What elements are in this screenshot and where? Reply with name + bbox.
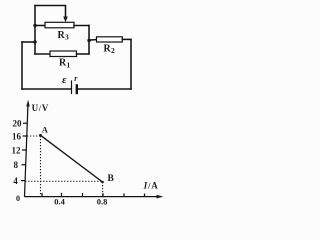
label 20 [13,119,23,129]
label R1 [59,58,71,70]
label 0.8 [97,196,108,206]
wire top wiper loop [35,6,66,18]
svg-text:4: 4 [13,176,18,186]
node A dot [39,134,42,137]
svg-text:U/V: U/V [32,103,49,113]
y tick 12 [22,149,26,151]
wire right inner rail [88,26,90,54]
resistor R1 [50,51,77,57]
wire bottom right [78,88,131,90]
svg-text:I/A: I/A [143,180,158,190]
label EMF epsilon [62,74,67,86]
label I/A [143,180,158,190]
battery cell E r : short plate [76,86,78,94]
wire R1 right lead [77,53,90,55]
battery cell E r : long plate [71,81,73,94]
svg-text:0.4: 0.4 [54,197,65,207]
wire R2 left lead [89,39,97,42]
label 0 origin [16,194,20,203]
svg-text:R2: R2 [104,43,116,55]
svg-text:0.8: 0.8 [97,196,108,206]
x tick 0.4 [61,193,63,197]
label 16 [12,132,22,142]
resistor R2 [97,37,123,42]
resistor R3 [45,22,74,28]
y tick 20 [23,122,27,124]
svg-text:R3: R3 [58,30,70,42]
dashed level 4 to B [25,180,102,182]
label U/V [32,103,49,113]
y tick 16 [23,135,27,137]
svg-text:12: 12 [12,146,22,156]
dashed vertical from A [40,136,42,196]
wiper arrow of R3 [63,17,68,23]
svg-text:8: 8 [14,160,19,170]
wire R3 left lead [35,25,45,27]
x tick 1.0 [123,193,125,197]
load line A to B [41,135,103,182]
wire right outer rail [130,39,132,89]
x tick 0.6 [82,193,84,197]
svg-text:r: r [74,74,78,83]
wire left outer rail [21,42,23,89]
svg-text:20: 20 [13,119,23,129]
x tick 0.8 [102,193,104,197]
label 0.4 [54,197,65,207]
svg-text:A: A [42,125,49,135]
label point A [42,125,49,135]
x tick 1.2 [144,194,146,197]
svg-text:R1: R1 [59,58,71,70]
y tick 8 [22,164,26,166]
label point B [108,174,115,184]
label 8 [14,160,19,170]
wire left tap [22,41,35,43]
y tick 4 [21,180,25,182]
node junction left tap [33,40,36,43]
node junction at R2 left [87,39,90,42]
node B dot [101,181,104,184]
y-axis U [25,100,30,197]
wire R3 right lead [74,25,89,27]
dashed vertical from B [102,182,104,197]
x-axis I [25,195,164,199]
label R3 [58,30,70,42]
label 12 [12,146,22,156]
wire bottom left [22,88,71,90]
x tick 0.2 [41,193,43,197]
wire R1 left lead [35,53,50,55]
svg-text:ε: ε [62,74,67,86]
label R2 [104,43,116,55]
wire R2 right lead [122,38,131,40]
wire left inner rail [34,6,36,55]
node junction at R3 left [33,24,36,27]
svg-text:B: B [108,174,115,184]
label internal resistance r [74,74,78,83]
svg-text:16: 16 [12,132,22,142]
dashed level 16 to A [27,135,41,137]
label 4 [13,176,18,186]
svg-text:0: 0 [16,194,20,203]
